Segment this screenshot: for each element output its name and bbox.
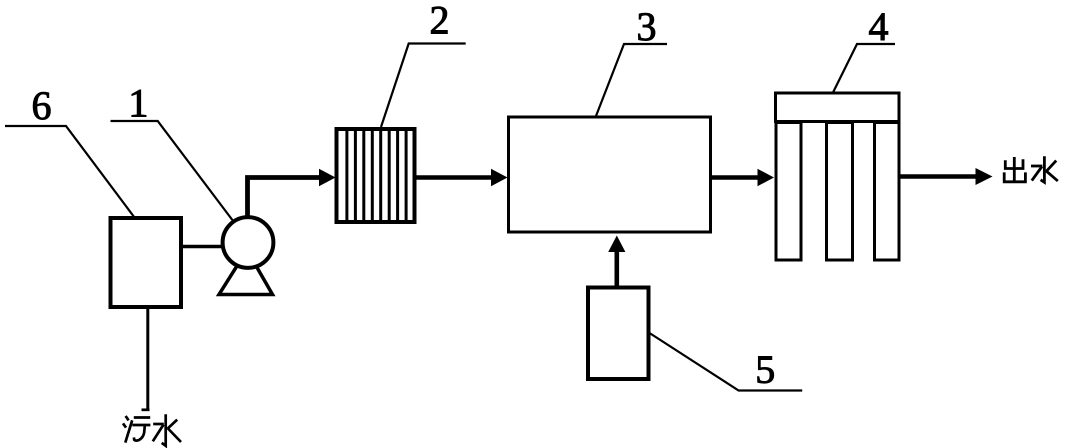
pump 1 (triangle base) (219, 250, 273, 295)
inlet wire (sewage) (146, 309, 149, 410)
unit 4 membrane bar 2 (827, 123, 853, 261)
pipe unit3 to unit4 (712, 175, 758, 180)
pump 1 (circle) (223, 217, 274, 268)
svg-text:6: 6 (32, 83, 52, 128)
pipe unit2 to unit3 (417, 175, 493, 180)
svg-text:1: 1 (128, 81, 148, 126)
wire tank6 to pump (183, 245, 224, 249)
label 3 (596, 4, 667, 116)
unit 4 (membrane module header) (776, 93, 900, 122)
text 出水 (1004, 156, 1058, 182)
label 4 (833, 4, 895, 93)
unit 4 membrane bar 1 (776, 123, 801, 261)
unit 5 (dosing tank) (588, 288, 649, 380)
pipe unit5 to unit3 (614, 252, 619, 287)
label 2 (381, 0, 466, 127)
svg-text:2: 2 (430, 0, 450, 43)
tank 6 (111, 218, 182, 307)
unit 4 membrane bar 3 (875, 123, 900, 261)
unit 2 (grid filter) (337, 129, 415, 222)
label 6 (5, 83, 135, 218)
svg-text:3: 3 (637, 4, 657, 49)
text 污水 (123, 410, 181, 446)
label 1 (111, 81, 234, 222)
unit 3 (reactor tank) (509, 117, 711, 232)
svg-text:5: 5 (755, 347, 775, 392)
pipe pump to unit2 (248, 178, 321, 219)
outlet pipe (901, 174, 977, 179)
label 5 (650, 333, 803, 392)
svg-text:4: 4 (869, 4, 889, 49)
